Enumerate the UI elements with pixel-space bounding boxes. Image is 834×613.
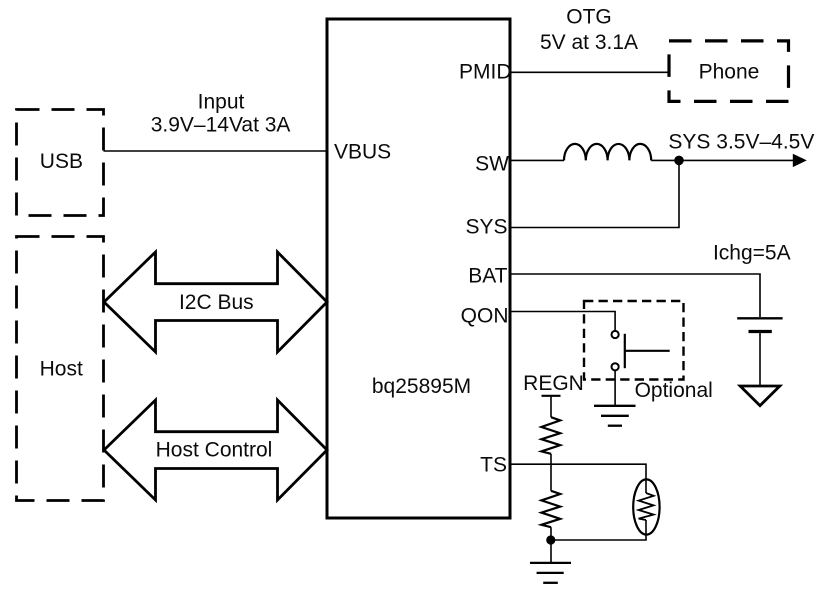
wire VBUS input (104, 150, 328, 152)
wire battery to ground (759, 333, 761, 385)
thermistor RT1 element (639, 493, 654, 520)
wire SYS output arrow line (679, 159, 794, 161)
wire TS to thermistor (511, 464, 646, 493)
svg-text:bq25895M: bq25895M (372, 375, 471, 398)
arrowhead SYS output (793, 154, 807, 167)
wire SW to inductor (511, 159, 564, 161)
wire Host Control bidirectional arrow (104, 400, 327, 500)
wire I2C bidirectional arrow (104, 252, 327, 352)
node USB box (17, 110, 104, 216)
wire SYS pin to junction (511, 160, 679, 227)
IC U1 bq25895M block (327, 19, 510, 518)
wire PMID to Phone (511, 71, 668, 73)
ground battery (triangle) (740, 386, 780, 406)
svg-text:Optional: Optional (635, 379, 713, 402)
svg-text:Host: Host (40, 357, 83, 380)
resistor R1 (541, 417, 560, 454)
battery BT1 plate long (737, 317, 782, 319)
svg-text:BAT: BAT (468, 264, 507, 287)
svg-text:Ichg=5A: Ichg=5A (713, 241, 791, 264)
svg-text:SYS: SYS (465, 215, 507, 238)
svg-text:REGN: REGN (523, 372, 584, 395)
svg-text:Input: Input (198, 90, 245, 113)
wire junction to thermistor bottom (551, 520, 646, 540)
svg-text:5V at 3.1A: 5V at 3.1A (540, 31, 638, 54)
node REGN terminal bar (542, 395, 561, 397)
switch S1 actuator stem (625, 350, 670, 352)
wire R1 to R2 (crosses TS wire) (550, 454, 552, 491)
switch S1 contact bottom (612, 363, 619, 370)
node SYS junction (674, 156, 684, 166)
node Phone box (669, 41, 789, 102)
node bottom junction (546, 535, 555, 544)
wire QON to switch (511, 312, 615, 331)
svg-text:TS: TS (480, 454, 507, 477)
svg-text:PMID: PMID (459, 61, 512, 84)
switch S1 actuator bar (624, 334, 626, 368)
wire R2 to ground node (550, 527, 552, 563)
node Optional box (584, 301, 684, 380)
wire switch to ground (614, 370, 616, 405)
wire BAT to battery (511, 274, 760, 317)
ground switch (594, 406, 636, 426)
svg-text:I2C Bus: I2C Bus (179, 291, 254, 314)
node Host box (17, 237, 104, 501)
thermistor RT1 ellipse (633, 479, 659, 534)
svg-text:Host Control: Host Control (156, 439, 273, 462)
svg-text:SYS 3.5V–4.5V: SYS 3.5V–4.5V (668, 130, 814, 153)
svg-text:3.9V–14Vat 3A: 3.9V–14Vat 3A (151, 113, 291, 136)
svg-text:OTG: OTG (566, 6, 612, 29)
svg-text:USB: USB (40, 150, 83, 173)
battery BT1 plate short (749, 330, 772, 333)
svg-text:QON: QON (461, 305, 509, 328)
svg-text:Phone: Phone (699, 61, 760, 84)
ground bottom (530, 563, 571, 583)
resistor R2 (541, 491, 560, 527)
svg-text:SW: SW (475, 153, 509, 176)
wire REGN to R1 (550, 396, 552, 417)
wire inductor to SYS node (651, 159, 679, 161)
switch S1 contact top (612, 331, 619, 338)
svg-text:VBUS: VBUS (334, 141, 391, 164)
inductor L1 (564, 144, 651, 160)
